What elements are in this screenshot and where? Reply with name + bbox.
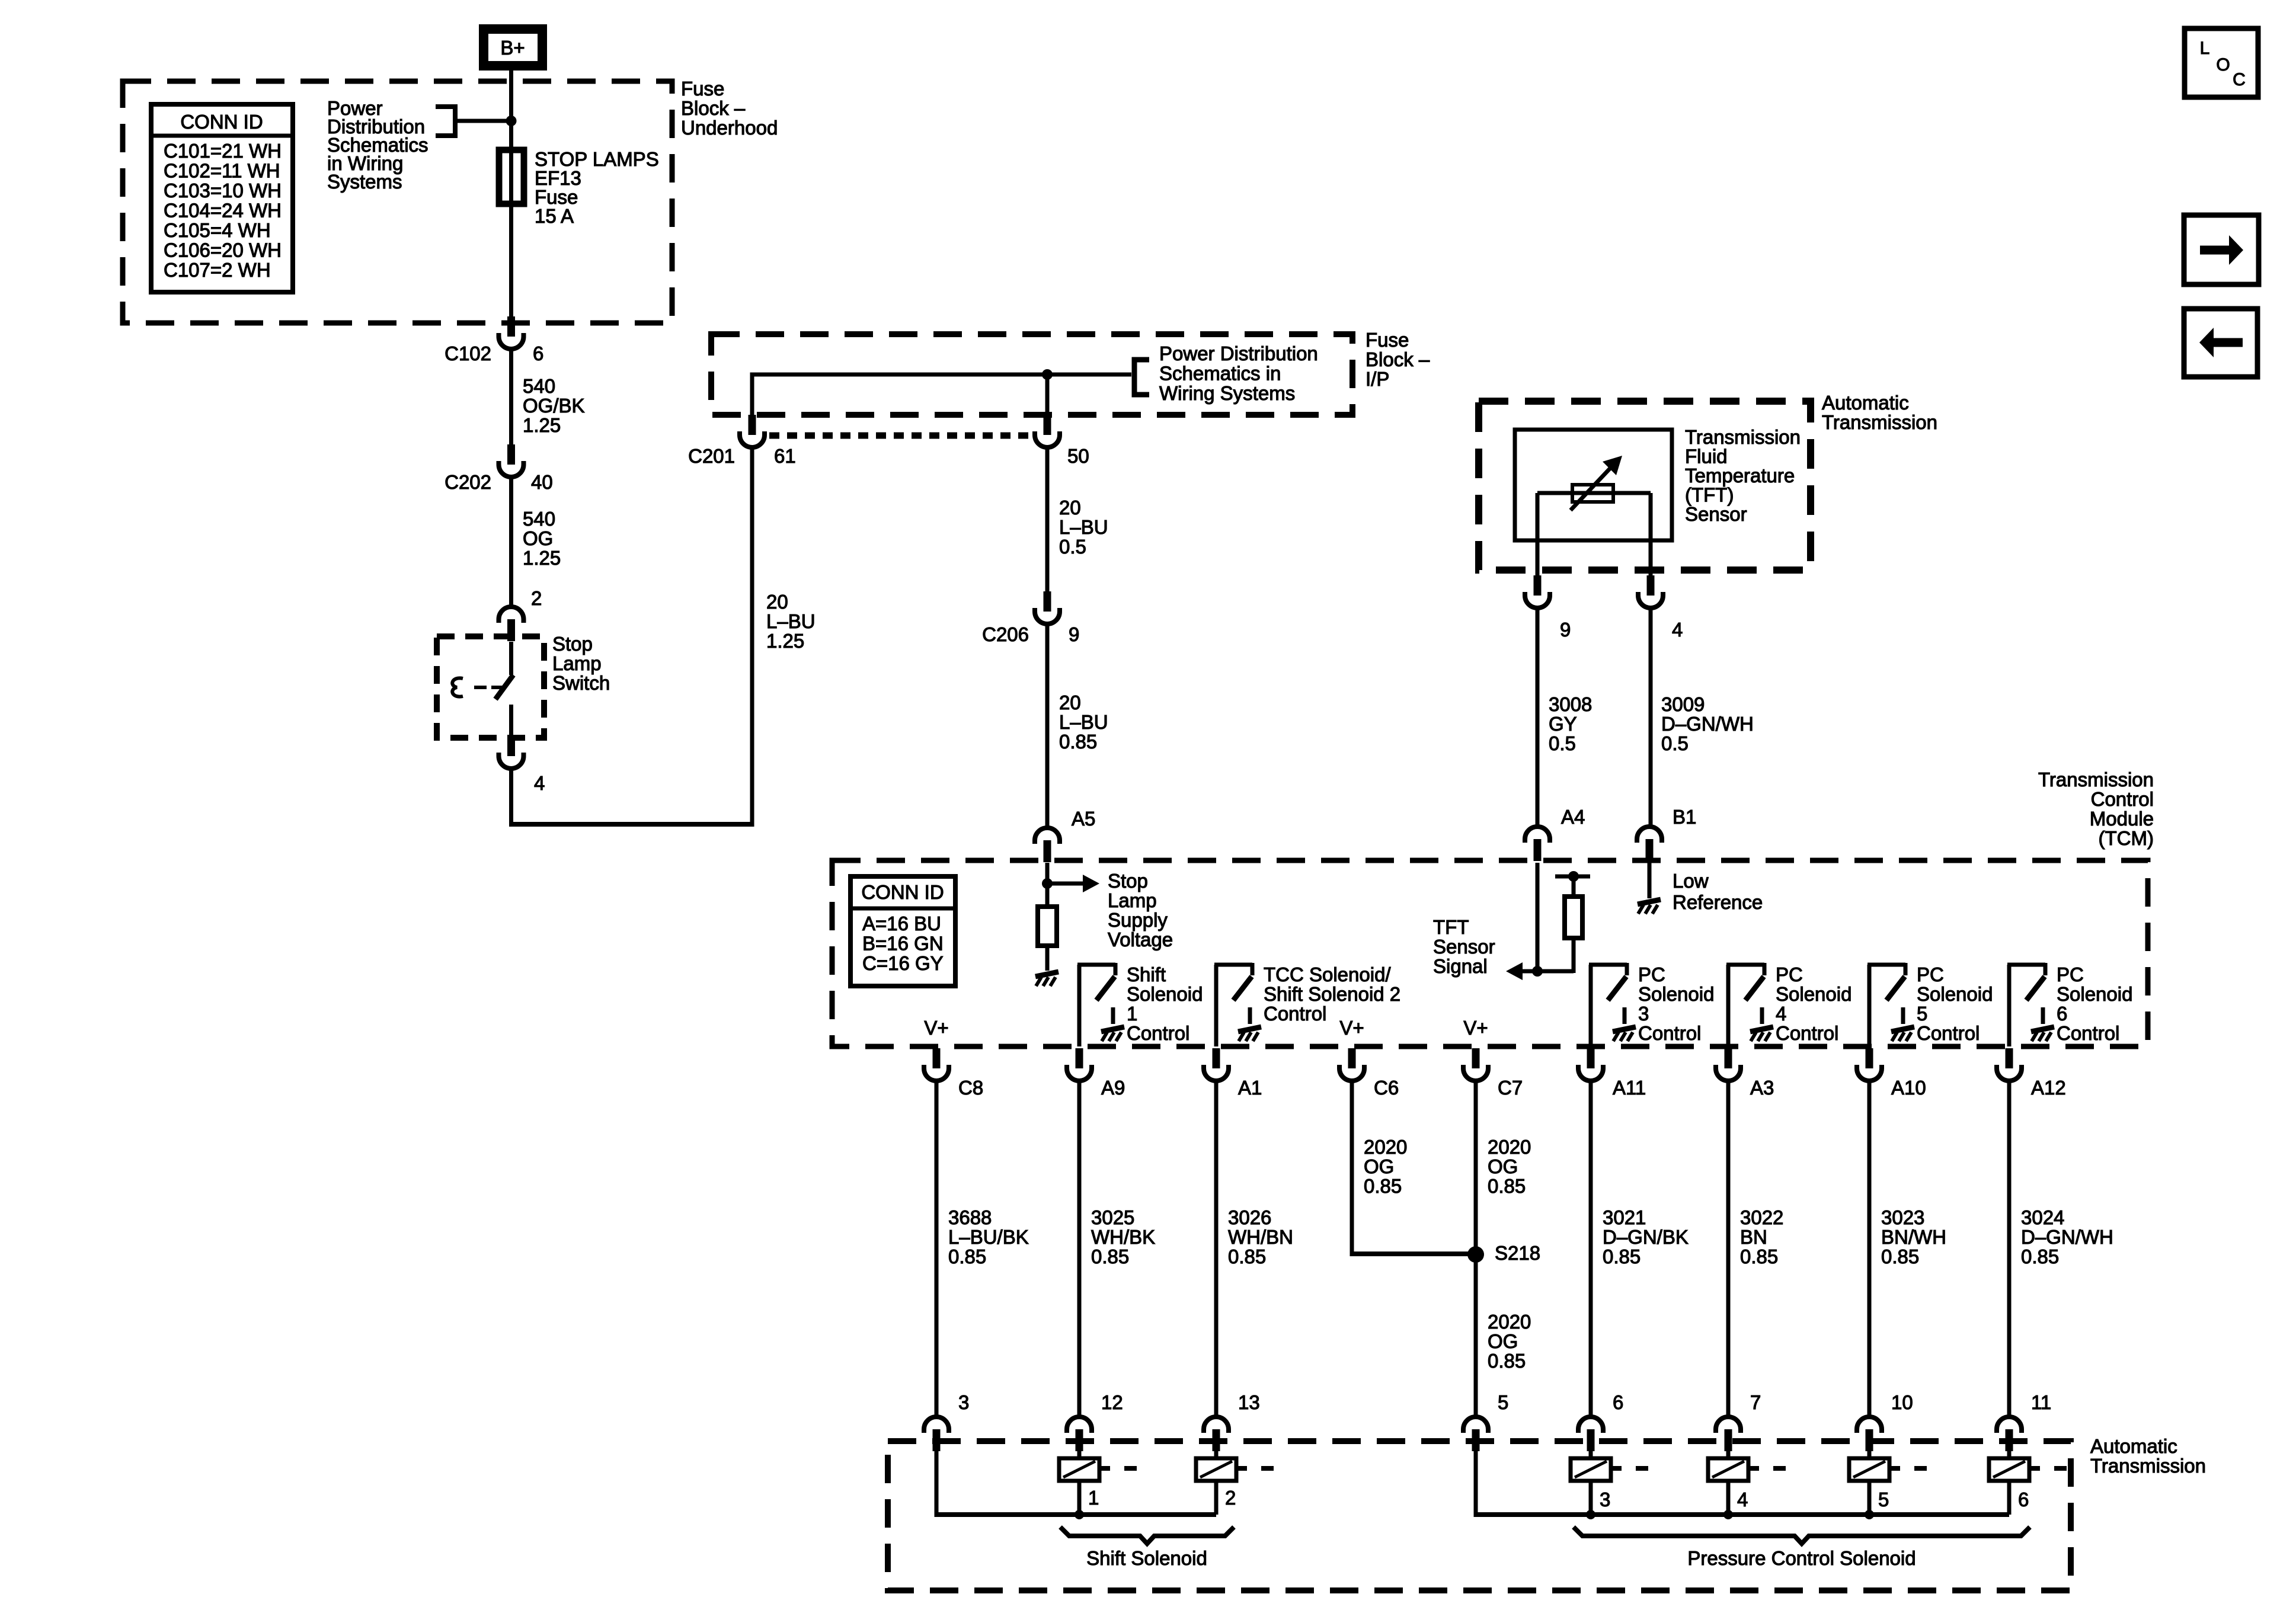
svg-text:Transmission: Transmission <box>2090 1455 2206 1477</box>
svg-text:Switch: Switch <box>552 672 610 694</box>
svg-text:L–BU: L–BU <box>1059 711 1108 733</box>
svg-text:C101=21 WH: C101=21 WH <box>164 140 282 162</box>
svg-text:D–GN/WH: D–GN/WH <box>1661 713 1754 735</box>
svg-text:0.85: 0.85 <box>1364 1175 1402 1197</box>
svg-text:Transmission: Transmission <box>1685 426 1801 448</box>
connector TFT pin 4 <box>1647 575 1655 596</box>
wire junction to pin50 <box>1045 375 1050 415</box>
CONN ID table underhood <box>151 104 293 292</box>
svg-text:0.85: 0.85 <box>1091 1246 1129 1267</box>
wire resistor to ground <box>1045 946 1050 971</box>
connector TCM pin A5 <box>1035 828 1060 844</box>
svg-text:12: 12 <box>1101 1391 1123 1413</box>
connector TCM pin A12 <box>2006 1048 2013 1068</box>
connector transmission pin 11 <box>1997 1417 2022 1433</box>
svg-text:Control: Control <box>1638 1022 1701 1044</box>
svg-text:11: 11 <box>2031 1391 2051 1413</box>
svg-text:0.85: 0.85 <box>1228 1246 1266 1267</box>
svg-text:Schematics in: Schematics in <box>1159 363 1281 385</box>
svg-text:Automatic: Automatic <box>2090 1435 2177 1457</box>
svg-text:B+: B+ <box>500 37 525 59</box>
wire circuit 3026 <box>1214 1081 1219 1419</box>
svg-text:Sensor: Sensor <box>1685 503 1747 525</box>
svg-text:PC: PC <box>1917 964 1944 985</box>
svg-text:Stop: Stop <box>552 633 593 655</box>
svg-text:OG/BK: OG/BK <box>523 395 585 417</box>
reference bracket Power Distribution (I/P) <box>1134 360 1149 395</box>
wire TFT pullup bottom <box>1572 938 1576 973</box>
svg-text:A=16 BU: A=16 BU <box>862 913 941 934</box>
wire 2020 OG (C6) <box>1350 1081 1354 1252</box>
svg-text:Block –: Block – <box>681 97 746 119</box>
junction node on B+ feed <box>506 116 517 126</box>
svg-text:6: 6 <box>2057 1003 2067 1025</box>
svg-text:Solenoid: Solenoid <box>1776 983 1851 1005</box>
wire junction to bracket <box>456 119 511 123</box>
solenoid 2 <box>1196 1458 1236 1481</box>
svg-text:3: 3 <box>1600 1489 1610 1510</box>
svg-text:BN: BN <box>1740 1226 1767 1248</box>
driver PC solenoid 3 control <box>1589 965 1593 1046</box>
wire 2020 OG (C7) <box>1474 1081 1478 1419</box>
svg-text:Temperature: Temperature <box>1685 465 1795 486</box>
svg-text:3: 3 <box>958 1391 969 1413</box>
svg-text:0.5: 0.5 <box>1059 536 1086 558</box>
svg-text:5: 5 <box>1917 1003 1927 1025</box>
svg-text:0.85: 0.85 <box>1488 1350 1526 1372</box>
svg-text:V+: V+ <box>1463 1017 1488 1039</box>
arrow box left <box>2184 309 2257 377</box>
connector transmission pin 7 <box>1716 1417 1741 1433</box>
svg-text:A12: A12 <box>2031 1077 2066 1099</box>
wire 20 L-BU 0.5 <box>1045 447 1050 593</box>
svg-text:Wiring Systems: Wiring Systems <box>1159 382 1295 404</box>
svg-text:Systems: Systems <box>327 171 402 193</box>
svg-text:PC: PC <box>1638 964 1665 985</box>
svg-text:2020: 2020 <box>1364 1136 1407 1158</box>
svg-text:Signal: Signal <box>1433 955 1488 977</box>
connector TCM pin A1 <box>1213 1048 1220 1068</box>
wire B+ to fuse and C102 <box>509 71 513 316</box>
svg-text:4: 4 <box>1737 1489 1748 1510</box>
svg-text:Voltage: Voltage <box>1108 929 1173 950</box>
svg-text:0.85: 0.85 <box>1603 1246 1641 1267</box>
svg-text:(TCM): (TCM) <box>2099 827 2154 849</box>
svg-text:3: 3 <box>1638 1003 1649 1025</box>
wire pressure solenoid feed <box>1474 1451 1478 1513</box>
connector transmission pin 10 <box>1857 1417 1882 1433</box>
svg-text:Fluid: Fluid <box>1685 446 1728 468</box>
svg-text:3023: 3023 <box>1881 1206 1924 1228</box>
ground TCM stop lamp input <box>1035 972 1059 977</box>
connector TCM pin C6 <box>1348 1048 1356 1068</box>
svg-text:C=16 GY: C=16 GY <box>862 952 944 974</box>
connector transmission pin 6 <box>1578 1417 1603 1433</box>
svg-text:Solenoid: Solenoid <box>2057 983 2132 1005</box>
connector switch pin 2 <box>499 607 524 623</box>
svg-text:0.85: 0.85 <box>1881 1246 1919 1267</box>
svg-text:V+: V+ <box>1339 1017 1364 1039</box>
svg-text:1.25: 1.25 <box>523 414 561 436</box>
svg-text:B=16 GN: B=16 GN <box>862 933 944 955</box>
ground low reference <box>1638 900 1661 904</box>
connector transmission pin 5 <box>1463 1417 1488 1433</box>
svg-text:0.85: 0.85 <box>1740 1246 1778 1267</box>
wire circuit 3022 <box>1726 1081 1731 1419</box>
wire switch pin4 to C201-61 <box>509 769 513 822</box>
svg-text:A10: A10 <box>1891 1077 1926 1099</box>
fuse block I/P dashed box <box>711 334 1352 415</box>
svg-text:Block –: Block – <box>1366 348 1430 370</box>
connector transmission pin 13 <box>1204 1417 1229 1433</box>
svg-text:1: 1 <box>1127 1003 1137 1025</box>
svg-text:6: 6 <box>1613 1391 1623 1413</box>
wire circuit 3025 <box>1077 1081 1082 1419</box>
svg-text:PC: PC <box>1776 964 1803 985</box>
svg-text:Low: Low <box>1673 870 1709 892</box>
svg-text:C107=2 WH: C107=2 WH <box>164 259 271 281</box>
wire pin11 to solenoid 6 <box>2007 1451 2012 1459</box>
connector C206 pin 9 <box>1044 591 1051 612</box>
svg-text:1: 1 <box>1088 1487 1099 1509</box>
reference bracket Power Distribution (underhood) <box>436 107 455 136</box>
svg-text:OG: OG <box>1488 1156 1518 1177</box>
svg-text:TFT: TFT <box>1433 916 1469 938</box>
connector TCM pin A9 <box>1076 1048 1083 1068</box>
svg-text:OG: OG <box>1364 1156 1394 1177</box>
connector TCM pin A11 <box>1587 1048 1595 1068</box>
svg-text:(TFT): (TFT) <box>1685 484 1734 506</box>
svg-text:D–GN/WH: D–GN/WH <box>2021 1226 2113 1248</box>
svg-text:Reference: Reference <box>1673 891 1763 913</box>
svg-text:1.25: 1.25 <box>523 547 561 569</box>
svg-text:20: 20 <box>1059 692 1081 713</box>
svg-text:61: 61 <box>774 445 796 467</box>
brace shift solenoid <box>1060 1527 1234 1544</box>
driver PC solenoid 4 control <box>1726 965 1731 1046</box>
solenoid 1 <box>1059 1458 1099 1481</box>
TFT thermistor <box>1537 491 1651 495</box>
svg-text:C: C <box>2233 70 2246 89</box>
connector TCM pin B1 <box>1637 827 1662 843</box>
junction node stop lamp supply <box>1042 878 1053 889</box>
connector TCM pin A10 <box>1866 1048 1873 1068</box>
svg-text:7: 7 <box>1750 1391 1761 1413</box>
svg-text:A11: A11 <box>1613 1077 1646 1099</box>
svg-text:L–BU/BK: L–BU/BK <box>948 1226 1029 1248</box>
svg-text:Transmission: Transmission <box>2038 769 2154 790</box>
wire pin7 to solenoid 4 <box>1726 1451 1731 1459</box>
splice S218 <box>1467 1246 1484 1263</box>
connector transmission pin 3 <box>924 1417 949 1433</box>
stop lamp switch contacts <box>509 642 513 675</box>
wire pin13 to solenoid 2 <box>1214 1451 1219 1459</box>
svg-text:50: 50 <box>1067 445 1089 467</box>
svg-text:4: 4 <box>1776 1003 1786 1025</box>
svg-text:A9: A9 <box>1101 1077 1125 1099</box>
svg-text:20: 20 <box>1059 497 1081 518</box>
svg-text:OG: OG <box>1488 1330 1518 1352</box>
svg-text:O: O <box>2216 55 2230 75</box>
svg-text:Control: Control <box>2057 1022 2119 1044</box>
svg-text:4: 4 <box>534 772 545 794</box>
svg-text:WH/BK: WH/BK <box>1091 1226 1155 1248</box>
junction node solenoid 5 <box>1865 1510 1874 1519</box>
power symbol B+ <box>479 24 547 71</box>
connector C102 pin 6 <box>507 316 515 337</box>
LOC reference box <box>2185 28 2258 97</box>
switch mechanical linkage <box>452 678 463 696</box>
TCM CONN ID table <box>850 876 955 986</box>
connector transmission pin 12 <box>1067 1417 1092 1433</box>
svg-text:3021: 3021 <box>1603 1206 1646 1228</box>
wire 540 OG <box>509 477 513 608</box>
driver PC solenoid 5 control <box>1868 965 1872 1046</box>
svg-text:TCC Solenoid/: TCC Solenoid/ <box>1264 964 1391 985</box>
svg-text:CONN ID: CONN ID <box>180 111 263 133</box>
resistor TCM stop lamp input <box>1038 907 1057 946</box>
svg-text:C106=20 WH: C106=20 WH <box>164 239 282 261</box>
svg-text:4: 4 <box>1672 619 1683 641</box>
svg-text:L: L <box>2200 39 2210 58</box>
svg-text:10: 10 <box>1891 1391 1913 1413</box>
arrow box right <box>2184 215 2259 284</box>
svg-text:40: 40 <box>531 471 553 493</box>
svg-text:C104=24 WH: C104=24 WH <box>164 200 282 222</box>
wire corner to pin61 <box>750 375 754 415</box>
connector C201 pin 61 <box>749 415 756 435</box>
solenoid 3 <box>1571 1458 1611 1481</box>
wire circuit 3024 <box>2007 1081 2012 1419</box>
svg-text:BN/WH: BN/WH <box>1881 1226 1946 1248</box>
svg-text:C201: C201 <box>688 445 735 467</box>
svg-text:Control: Control <box>2091 788 2154 810</box>
wire 540 OG/BK <box>509 349 513 444</box>
driver PC solenoid 6 control <box>2007 965 2012 1046</box>
connector TFT pin 9 <box>1534 575 1542 596</box>
svg-text:Automatic: Automatic <box>1822 392 1909 414</box>
svg-text:3022: 3022 <box>1740 1206 1783 1228</box>
svg-text:3026: 3026 <box>1228 1206 1271 1228</box>
svg-text:C202: C202 <box>445 471 491 493</box>
svg-text:Underhood: Underhood <box>681 117 778 139</box>
svg-text:0.85: 0.85 <box>1488 1175 1526 1197</box>
svg-text:PC: PC <box>2057 964 2084 985</box>
wire B1 internal <box>1648 863 1652 898</box>
svg-text:OG: OG <box>523 527 553 549</box>
svg-text:Control: Control <box>1917 1022 1980 1044</box>
TFT pullup supply stub <box>1555 875 1590 879</box>
svg-text:6: 6 <box>533 343 543 364</box>
svg-text:A1: A1 <box>1238 1077 1262 1099</box>
svg-text:A5: A5 <box>1072 808 1095 830</box>
connector C202 pin 40 <box>507 444 515 465</box>
wire I/P bus <box>750 373 1132 377</box>
svg-text:Shift Solenoid 2: Shift Solenoid 2 <box>1264 983 1400 1005</box>
svg-text:GY: GY <box>1549 713 1577 735</box>
svg-text:Module: Module <box>2090 808 2154 830</box>
svg-text:2: 2 <box>1225 1487 1236 1509</box>
automatic transmission dashed box (bottom) <box>888 1441 2071 1590</box>
svg-text:Control: Control <box>1776 1022 1838 1044</box>
svg-text:2020: 2020 <box>1488 1136 1531 1158</box>
driver shift solenoid 1 control <box>1077 965 1082 1046</box>
wire pin6 to solenoid 3 <box>1589 1451 1593 1459</box>
connector C201 dashed line <box>769 433 1030 439</box>
resistor TFT pullup <box>1565 897 1582 938</box>
svg-text:L–BU: L–BU <box>766 610 816 632</box>
svg-text:WH/BN: WH/BN <box>1228 1226 1293 1248</box>
svg-text:CONN ID: CONN ID <box>861 881 944 903</box>
svg-text:Lamp: Lamp <box>1108 889 1157 911</box>
TFT sensor box <box>1515 430 1672 540</box>
wire TFT pin9 lead <box>1536 493 1540 584</box>
connector TCM pin C7 <box>1472 1048 1480 1068</box>
svg-text:2: 2 <box>531 587 542 609</box>
connector TCM pin C8 <box>933 1048 941 1068</box>
svg-text:9: 9 <box>1069 623 1079 645</box>
svg-text:Solenoid: Solenoid <box>1127 983 1203 1005</box>
stop lamp switch dashed box <box>437 636 544 738</box>
svg-text:9: 9 <box>1560 619 1571 641</box>
svg-text:Stop: Stop <box>1108 870 1148 892</box>
svg-text:2020: 2020 <box>1488 1311 1531 1333</box>
svg-text:3024: 3024 <box>2021 1206 2064 1228</box>
svg-text:0.85: 0.85 <box>1059 731 1097 753</box>
svg-text:V+: V+ <box>924 1017 948 1039</box>
svg-text:Transmission: Transmission <box>1822 411 1937 433</box>
junction node above pin 50 <box>1042 369 1053 380</box>
svg-text:15 A: 15 A <box>535 205 574 227</box>
svg-text:L–BU: L–BU <box>1059 516 1108 538</box>
wire pin10 to solenoid 5 <box>1868 1451 1872 1459</box>
svg-text:13: 13 <box>1238 1391 1260 1413</box>
svg-text:20: 20 <box>766 591 788 613</box>
svg-text:C102=11 WH: C102=11 WH <box>164 160 280 182</box>
junction node solenoid 3 <box>1586 1510 1595 1519</box>
svg-text:Solenoid: Solenoid <box>1917 983 1993 1005</box>
fuse block underhood dashed box <box>123 81 672 323</box>
arrow stop lamp supply voltage <box>1047 882 1083 886</box>
brace pressure control solenoid <box>1574 1527 2030 1544</box>
svg-text:6: 6 <box>2018 1489 2029 1510</box>
svg-text:3688: 3688 <box>948 1206 992 1228</box>
svg-text:A4: A4 <box>1561 806 1585 828</box>
svg-text:C103=10 WH: C103=10 WH <box>164 180 282 201</box>
arrow TFT sensor signal <box>1506 962 1523 980</box>
automatic transmission dashed box (TFT) <box>1479 401 1811 570</box>
TCM dashed box <box>832 860 2148 1046</box>
svg-text:S218: S218 <box>1495 1242 1540 1264</box>
svg-text:Control: Control <box>1127 1022 1189 1044</box>
connector switch pin 4 <box>507 736 515 756</box>
wire circuit 3688 <box>935 1081 939 1419</box>
svg-text:Sensor: Sensor <box>1433 936 1495 958</box>
svg-text:C6: C6 <box>1374 1077 1399 1099</box>
svg-text:1.25: 1.25 <box>766 630 804 652</box>
svg-text:5: 5 <box>1878 1489 1889 1510</box>
svg-text:3009: 3009 <box>1661 693 1705 715</box>
svg-text:D–GN/BK: D–GN/BK <box>1603 1226 1689 1248</box>
svg-text:Fuse: Fuse <box>1366 329 1409 351</box>
svg-text:C7: C7 <box>1498 1077 1523 1099</box>
wire 3008 GY <box>1536 608 1540 828</box>
wire 3009 D-GN/WH <box>1649 608 1653 828</box>
wire A5 internal <box>1045 863 1050 907</box>
wire 20 L-BU 0.85 <box>1045 624 1050 830</box>
svg-text:Lamp: Lamp <box>552 652 602 674</box>
svg-text:C206: C206 <box>982 623 1029 645</box>
svg-text:0.85: 0.85 <box>2021 1246 2059 1267</box>
svg-text:3025: 3025 <box>1091 1206 1134 1228</box>
svg-text:Fuse: Fuse <box>681 78 724 100</box>
wire circuit 3023 <box>1868 1081 1872 1419</box>
junction node solenoid 1 <box>1075 1510 1084 1519</box>
svg-text:Pressure Control Solenoid: Pressure Control Solenoid <box>1687 1547 1916 1569</box>
svg-text:B1: B1 <box>1673 806 1696 828</box>
svg-text:5: 5 <box>1498 1391 1508 1413</box>
wire circuit 3021 <box>1589 1081 1593 1419</box>
svg-text:Shift: Shift <box>1127 964 1166 985</box>
fuse EF13 STOP LAMPS 15A <box>499 150 524 204</box>
junction node solenoid 4 <box>1723 1510 1733 1519</box>
svg-text:Supply: Supply <box>1108 909 1168 931</box>
wire TFT pin4 lead <box>1649 493 1653 584</box>
solenoid 4 <box>1708 1458 1748 1481</box>
svg-text:540: 540 <box>523 375 555 397</box>
connector TCM pin A4 <box>1525 827 1550 843</box>
junction node TFT signal <box>1532 966 1543 977</box>
wire shift solenoid feed <box>935 1451 939 1513</box>
wire TFT pullup top <box>1572 876 1576 897</box>
svg-text:540: 540 <box>523 508 555 530</box>
solenoid 6 <box>1989 1458 2029 1481</box>
driver TCC solenoid control <box>1214 965 1219 1046</box>
svg-text:C102: C102 <box>445 343 491 364</box>
svg-text:0.5: 0.5 <box>1661 732 1689 754</box>
connector C201 pin 50 <box>1044 415 1051 435</box>
svg-text:C8: C8 <box>958 1077 983 1099</box>
svg-text:Shift Solenoid: Shift Solenoid <box>1086 1547 1207 1569</box>
svg-text:A3: A3 <box>1750 1077 1774 1099</box>
svg-text:0.5: 0.5 <box>1549 732 1576 754</box>
wire pin12 to solenoid 1 <box>1077 1451 1082 1459</box>
svg-text:3008: 3008 <box>1549 693 1592 715</box>
svg-text:Control: Control <box>1264 1003 1326 1025</box>
svg-text:Solenoid: Solenoid <box>1638 983 1714 1005</box>
svg-text:Power Distribution: Power Distribution <box>1159 343 1318 364</box>
svg-text:C105=4 WH: C105=4 WH <box>164 219 271 241</box>
svg-text:0.85: 0.85 <box>948 1246 986 1267</box>
svg-text:I/P: I/P <box>1366 368 1389 390</box>
connector TCM pin A3 <box>1725 1048 1732 1068</box>
solenoid 5 <box>1849 1458 1889 1481</box>
wire A4 internal <box>1536 863 1540 971</box>
